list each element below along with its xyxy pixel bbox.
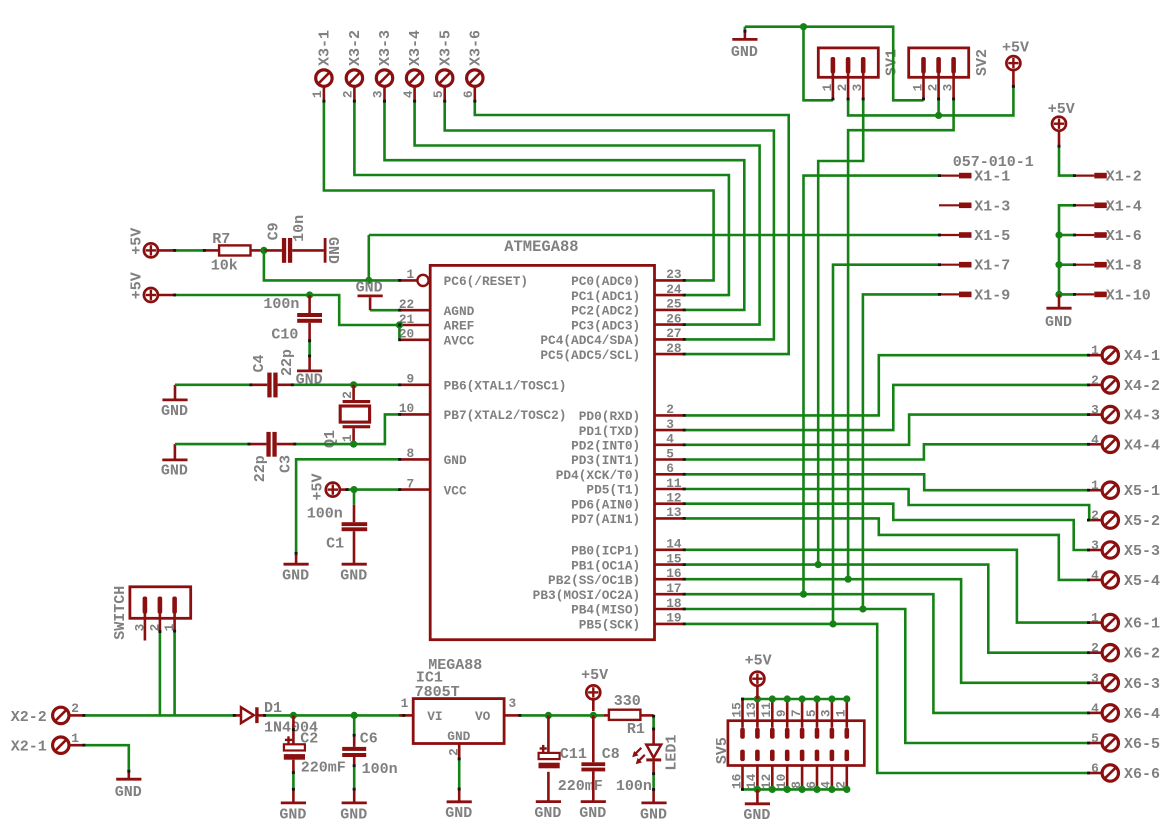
wire PB3 to X6-4 [685,594,1089,713]
svg-text:X1-10: X1-10 [1106,287,1151,304]
wire PB5 to X6-6 [685,624,1089,773]
svg-text:X6-1: X6-1 [1124,616,1160,633]
ground symbol below C8 [579,802,606,822]
svg-text:X1-8: X1-8 [1106,258,1142,275]
connector pad X1-7 [939,264,972,266]
svg-text:+5V: +5V [581,667,608,684]
capacitor C3 [249,432,295,457]
svg-text:1: 1 [820,83,835,91]
connector pad X4-4 [1102,436,1118,452]
svg-text:8: 8 [407,446,415,461]
svg-text:3: 3 [850,83,865,91]
wire IC1 pin2 to ground [458,759,461,789]
pin 3 of SV2 [951,57,956,99]
pin X6-4 [1088,712,1102,715]
junction AREF/AVCC [396,321,403,328]
ground X1 chain stem [1058,294,1061,308]
ground symbol left of C4 [161,400,188,420]
svg-text:PB2(SS/OC1B): PB2(SS/OC1B) [548,573,640,588]
junction SV5 bottom pin 10 [784,786,791,793]
wire X1-8 stub [1059,263,1074,266]
connector pad X5-3 [1102,542,1118,558]
svg-text:330: 330 [614,693,641,710]
pin connection tips [82,30,1090,791]
svg-text:+5V: +5V [128,228,145,255]
LED1 light arrows [632,748,645,764]
power +5V near SV2 stub [1012,70,1015,86]
junction X1-10 [1055,291,1062,298]
connector SV5 [714,721,865,766]
svg-text:2: 2 [1091,373,1099,388]
wire PB4 to X6-5 [685,609,1089,743]
junction R7/C9/RESET [260,247,267,254]
connector pad X2-1 [53,737,69,753]
ground symbol below SV5 [743,804,770,824]
pin 6 PD4(XCK/T0) [556,461,684,483]
pin 3 PD1(TXD) [579,417,684,439]
svg-text:PC4(ADC4/SDA): PC4(ADC4/SDA) [540,333,640,348]
svg-text:SV5: SV5 [714,737,731,764]
svg-text:VO: VO [475,709,491,724]
pin 19 PB5(SCK) [579,611,684,633]
wire X1-1 to PB3 [804,176,940,595]
connector pad X3-4 [406,70,422,86]
pin 3 of SWITCH [143,597,148,614]
ground symbol AGND (inverted) [356,279,383,310]
wire PD4 to X5-1 [685,474,1089,490]
power +5V VCC stub [340,488,347,491]
svg-text:5: 5 [666,446,674,461]
svg-text:AREF: AREF [444,319,475,334]
ground symbol below LED1 [640,803,667,823]
pin 3 of SV1 [861,57,866,99]
wire PB0 to X6-1 [685,550,1089,623]
pin X6-6 [1088,772,1102,775]
ground symbol below C11 [534,802,561,822]
svg-text:GND: GND [324,237,341,264]
power +5V at R7 [128,228,157,258]
pin 25 PC2(ADC2) [571,297,683,319]
pin 6 of SV5 [815,750,820,790]
svg-text:12: 12 [666,491,681,506]
pin X3-5 [443,87,446,102]
svg-text:C10: C10 [271,326,298,343]
wire GND rail to SV1/SV2 pin1 [745,27,924,101]
pin 13 of SV5 [755,699,760,739]
svg-text:17: 17 [666,581,681,596]
svg-text:7805T: 7805T [415,684,460,701]
ground symbol below C6 [340,803,367,823]
svg-text:PB0(ICP1): PB0(ICP1) [571,544,640,559]
connector pad X6-4 [1102,705,1118,721]
wire RESET up to X1-5 line [367,235,370,280]
ground symbol below X2-1 [115,779,142,801]
wire PD1 to X4-2 [685,385,1089,430]
capacitor C10 [297,295,322,341]
svg-text:PC6(/RESET): PC6(/RESET) [444,274,528,289]
ground symbol below C10 [296,371,323,389]
svg-text:PB4(MISO): PB4(MISO) [571,603,640,618]
svg-text:C1: C1 [326,536,344,553]
junction C2 tap [290,712,297,719]
wire R1 to LED1 [652,716,655,729]
pin 28 PC5(ADC5/SCL) [540,341,683,363]
svg-text:GND: GND [640,806,667,823]
svg-text:X4-4: X4-4 [1124,437,1160,454]
pin 22 AGND [399,297,475,319]
svg-text:3: 3 [1091,538,1099,553]
svg-text:2: 2 [666,402,674,417]
svg-text:GND: GND [340,568,367,585]
connector pad X3-5 [437,70,453,86]
svg-text:15: 15 [666,551,682,566]
svg-text:GND: GND [579,805,606,822]
svg-text:220mF: 220mF [558,778,603,795]
junction SV2 pin2 on +5V rail [935,112,942,119]
svg-text:C9: C9 [265,222,282,240]
wire X3-3 to PC2(ADC2) [385,101,745,310]
svg-text:X2-1: X2-1 [11,739,47,756]
svg-text:100n: 100n [362,761,398,778]
wire X1-4/6/8/10 ground chain [1059,205,1074,294]
pin 17 PB3(MOSI/OC2A) [533,581,684,603]
wire C9 junction down to RESET [264,250,400,280]
junction RESET node [365,277,372,284]
junction X1-6 [1055,231,1062,238]
wire SV2 pin3 to PB2 [848,99,954,580]
capacitor C2 plates [284,736,305,759]
pin 1 of SV2 [921,57,926,99]
svg-text:GND: GND [1045,314,1072,331]
ground symbol below IC1 [445,802,472,822]
svg-text:220mF: 220mF [301,759,346,776]
wire +5V rail SV1 pin2 to +5V [848,86,1013,115]
junction SV1 pin3 net at PB1 [815,561,822,568]
svg-text:25: 25 [666,297,682,312]
svg-text:PC5(ADC5/SCL): PC5(ADC5/SCL) [540,348,640,363]
wire C2 to ground [292,760,295,773]
wire X3-1 to PC0(ADC0) [324,101,714,280]
pin 15 PB1(OC1A) [571,551,683,573]
ground LED1 stem [652,790,655,803]
wire C11 to ground [547,772,550,801]
capacitor C1 [342,505,368,565]
svg-text:X6-4: X6-4 [1124,706,1160,723]
svg-text:PD3(INT1): PD3(INT1) [571,453,640,468]
svg-text:X1-5: X1-5 [974,228,1010,245]
svg-text:PD5(T1): PD5(T1) [586,483,640,498]
pin 4 of SV5 [830,750,835,790]
pin 14 of SV5 [755,750,760,790]
wire PD6 to X5-3 [685,504,1089,550]
resistor R7 [204,245,264,255]
wire X3-5 to PC4(ADC4/SDA) [445,101,774,339]
svg-text:18: 18 [666,596,681,611]
svg-text:GND: GND [115,784,142,801]
svg-text:1: 1 [1091,343,1099,358]
pin 1 of IC1 [399,714,413,717]
wire D1 to IC1 VI [264,714,404,717]
svg-text:16: 16 [666,566,681,581]
junction SV5 top pin 1 [843,695,850,702]
junction GND rail [800,23,807,30]
pin X4-3 [1088,413,1102,416]
pin X6-1 [1088,621,1102,624]
junction SV5 bottom pin 12 [769,786,776,793]
svg-text:X1-6: X1-6 [1106,228,1142,245]
svg-text:C8: C8 [602,746,620,763]
svg-text:2: 2 [835,84,850,92]
wire X1-7 to PB5 [833,265,939,624]
svg-text:PD7(AIN1): PD7(AIN1) [571,512,640,527]
junction SV5 bottom pin 4 [828,786,835,793]
pin 2 of SV2 [936,57,941,99]
wire X3-6 to PC5(ADC5/SCL) [475,101,789,354]
pin 5 of SV5 [815,699,820,739]
pin 21 AREF [399,312,474,334]
pin 12 PD6(AIN0) [571,491,683,513]
svg-text:PB5(SCK): PB5(SCK) [579,618,640,633]
pin X6-3 [1088,681,1102,684]
svg-text:1: 1 [71,731,79,746]
pin X5-4 [1088,579,1102,582]
power +5V output stub [592,699,595,711]
wire PB2 to X6-3 [685,579,1089,683]
svg-text:PC3(ADC3): PC3(ADC3) [571,318,640,333]
svg-text:3: 3 [666,417,674,432]
svg-text:10k: 10k [211,257,238,274]
connector pad X6-6 [1102,765,1118,781]
capacitor C2 [292,715,295,744]
connector pad X1-1 [939,175,972,177]
connector pad X6-3 [1102,675,1118,691]
wire GND pin8 [296,459,400,553]
svg-text:5: 5 [1091,731,1099,746]
wire PD3 to X4-4 [685,444,1089,459]
power +5V SV5 stub [756,686,759,699]
svg-text:AGND: AGND [444,304,475,319]
connector pad X6-2 [1102,645,1118,661]
svg-text:2: 2 [926,84,941,92]
svg-text:2: 2 [71,701,79,716]
connector pad X1-10 [1074,293,1107,295]
pin 9 PB6(XTAL1/TOSC1) [400,372,567,394]
svg-text:PB3(MOSI/OC2A): PB3(MOSI/OC2A) [533,588,641,603]
junction C10 tap [306,291,313,298]
pin 24 PC1(ADC1) [571,282,683,304]
wire PD5 to X5-2 [685,489,1090,520]
ground symbol right of C9 (rotated) [324,237,341,264]
wire RESET to X1-5 [369,234,939,237]
svg-text:X3-5: X3-5 [437,30,454,66]
wire +5V to R7 [175,249,205,252]
junction VCC/C1 [350,486,357,493]
power +5V near SV2 [1002,39,1029,70]
svg-text:X1-4: X1-4 [1106,198,1142,215]
power +5V at C10 [128,272,158,302]
connector pad X3-3 [376,70,392,86]
pin 26 PC3(ADC3) [571,311,683,333]
pin 1 of SV1 [831,57,836,99]
wire SV5 ground rail [743,788,847,791]
connector pad X1-6 [1074,234,1107,236]
svg-text:GND: GND [356,279,383,296]
wire LED1 to ground [652,774,655,790]
capacitor C11 [547,715,550,753]
svg-text:4: 4 [1091,432,1099,447]
svg-text:X4-1: X4-1 [1124,348,1160,365]
wire X1-6 stub [1059,234,1074,237]
pin 14 PB0(ICP1) [571,537,683,559]
svg-text:9: 9 [407,372,415,387]
junction SV5 bottom pin 2 [843,786,850,793]
wire VCC to C1 [353,490,356,505]
pin X3-6 [473,87,476,102]
svg-text:1: 1 [1091,611,1099,626]
svg-text:C3: C3 [278,455,295,473]
connector pad X2-2 [53,707,69,723]
svg-text:GND: GND [534,805,561,822]
resistor R1 [604,710,654,720]
wire PD7 to X5-4 [685,518,1089,580]
junction SV5 top pin 11 [769,695,776,702]
wire X2-2 to D1 [84,714,234,717]
svg-text:X1-3: X1-3 [974,198,1010,215]
svg-text:PC2(ADC2): PC2(ADC2) [571,304,640,319]
junction C11 tap [545,712,552,719]
pin 15 of SV5 [740,699,745,739]
svg-text:X6-3: X6-3 [1124,676,1160,693]
wire PD2 to X4-3 [685,415,1089,445]
junction X1-9 net at PB4 [859,605,866,612]
svg-text:+5V: +5V [745,653,772,670]
pin 1 PC6(/RESET) [400,267,528,289]
connector pad X6-5 [1102,735,1118,751]
wire SWITCH pin2 down [159,632,162,716]
svg-text:PB1(OC1A): PB1(OC1A) [571,558,640,573]
svg-text:GND: GND [340,806,367,823]
svg-text:7: 7 [407,476,415,491]
diode D1 [234,707,264,723]
wire +5V to AREF/AVCC [175,295,400,325]
svg-text:X3-3: X3-3 [377,30,394,66]
svg-text:PD2(INT0): PD2(INT0) [571,439,640,454]
svg-text:X6-6: X6-6 [1124,766,1160,783]
junction XTAL1 [350,381,357,388]
pin 3 stub of SWITCH [144,611,147,641]
connector pad X6-1 [1102,614,1118,630]
svg-text:11: 11 [666,476,682,491]
svg-text:AVCC: AVCC [444,334,475,349]
wire IC1 VO rail [519,714,604,717]
ground C10 stem [308,356,311,371]
pin X6-5 [1088,742,1102,745]
pin 2 of SV1 [846,57,851,99]
svg-text:+5V: +5V [1048,101,1075,118]
svg-text:27: 27 [666,326,681,341]
svg-text:2: 2 [1091,641,1099,656]
svg-text:+5V: +5V [310,473,327,500]
pin 18 PB4(MISO) [571,596,683,618]
svg-text:1: 1 [834,709,849,717]
svg-text:GND: GND [731,44,758,61]
svg-text:SV2: SV2 [974,49,991,76]
ground C6 stem [353,789,356,803]
svg-text:X4-2: X4-2 [1124,378,1160,395]
svg-text:PC1(ADC1): PC1(ADC1) [571,289,640,304]
svg-text:GND: GND [282,568,309,585]
wire X1-9 to PB4 [863,294,939,609]
pin 12 of SV5 [770,750,775,790]
svg-text:GND: GND [447,729,470,744]
wire +5V to VCC [347,488,400,491]
svg-text:PB7(XTAL2/TOSC2): PB7(XTAL2/TOSC2) [444,408,567,423]
svg-text:PC0(ADC0): PC0(ADC0) [571,274,640,289]
svg-text:100n: 100n [616,778,652,795]
power +5V stub at R7 [158,249,175,252]
pin 10 of SV5 [785,750,790,790]
wire ground to C3 [175,443,249,446]
connector SV1 [818,48,900,77]
svg-text:6: 6 [1091,761,1099,776]
junction X1-7 net at PB5 [829,620,836,627]
pin X4-4 [1088,443,1102,446]
connector pad X1-8 [1074,264,1107,266]
svg-text:X3-1: X3-1 [317,30,334,66]
svg-text:3: 3 [819,709,834,717]
connector pad X3-2 [346,70,362,86]
pin 3 of SV5 [830,699,835,739]
svg-text:PB6(XTAL1/TOSC1): PB6(XTAL1/TOSC1) [444,379,567,394]
svg-text:X5-1: X5-1 [1124,483,1160,500]
svg-text:R7: R7 [212,231,230,248]
wire SV5 +5V rail [743,698,847,701]
pin 11 of SV5 [770,699,775,739]
svg-text:X6-2: X6-2 [1124,646,1160,663]
wire XTAL2 jog [354,414,400,444]
junction SV5 bottom pin 6 [813,786,820,793]
svg-text:28: 28 [666,341,681,356]
wire C6 to ground [353,766,356,790]
svg-text:PD6(AIN0): PD6(AIN0) [571,497,640,512]
pin 5 PD3(INT1) [571,446,683,468]
junction SV5 top pin 5 [813,695,820,702]
wire +5V to X1-2 [1059,146,1074,176]
pin 27 PC4(ADC4/SDA) [540,326,683,348]
power +5V at VCC [310,473,340,500]
wire AGND to ground [370,309,400,312]
pin 7 VCC [400,476,467,498]
power +5V at SV5 [745,653,772,686]
pin X2-1 [69,744,84,747]
connector pad X3-1 [316,70,332,86]
svg-text:X5-2: X5-2 [1124,513,1160,530]
svg-text:GND: GND [445,805,472,822]
voltage regulator IC1 7805T [413,699,504,744]
pin X3-3 [383,87,386,102]
svg-text:PD4(XCK/T0): PD4(XCK/T0) [556,468,640,483]
svg-text:X5-4: X5-4 [1124,573,1160,590]
svg-text:13: 13 [744,702,759,718]
ground C2 stem [292,790,295,803]
ground symbol top centre [731,39,758,61]
svg-text:16: 16 [729,774,744,789]
svg-text:X3-2: X3-2 [347,30,364,66]
junction X1-1 net at PB3 [800,591,807,598]
pin 8 GND [400,446,467,468]
svg-text:3: 3 [941,83,956,91]
junction +5V/C8 tap [590,712,597,719]
